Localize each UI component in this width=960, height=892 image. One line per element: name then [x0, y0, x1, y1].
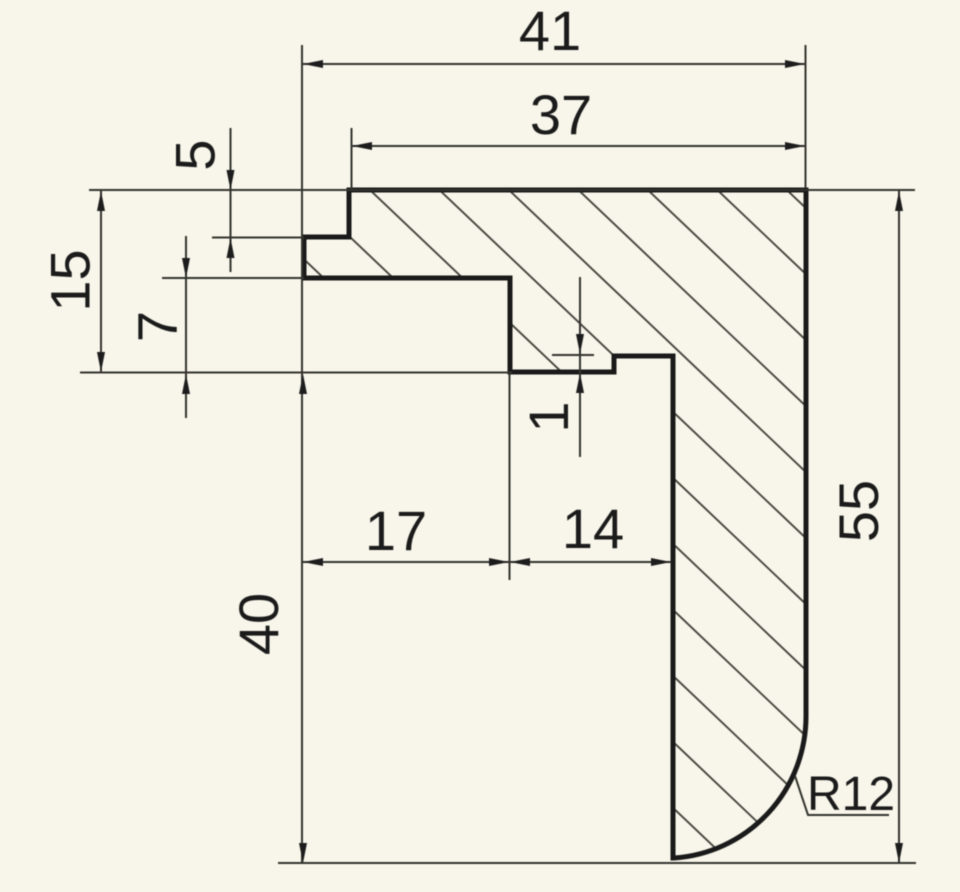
baseline y=863 — [278, 862, 916, 864]
svg-text:41: 41 — [519, 0, 581, 62]
leader R12 — [795, 776, 889, 815]
svg-text:15: 15 — [39, 249, 102, 311]
extension line x=509.5 — [509, 374, 511, 580]
extension line y=372.5 — [80, 372, 512, 374]
arrow 55 top (up) — [895, 191, 903, 211]
arrow 14 left — [510, 558, 530, 566]
extension tick y=355 — [552, 354, 594, 356]
arrow 37 right — [785, 142, 805, 150]
dim line 17/14 y=562 — [303, 561, 671, 563]
arrow 41 left — [303, 60, 323, 68]
svg-text:7: 7 — [126, 311, 189, 342]
arrow 41 right — [785, 60, 805, 68]
arrow 5 top (down) — [227, 170, 235, 190]
section hatching — [280, 0, 840, 892]
svg-text:1: 1 — [517, 401, 580, 432]
profile outline — [304, 190, 806, 858]
dim line 1 x=580 — [579, 277, 581, 457]
arrow 7 top (down) — [182, 258, 190, 278]
extension/dim line x=302 — [301, 45, 303, 863]
dim line 41 y=64 — [303, 63, 805, 65]
svg-text:14: 14 — [562, 497, 624, 560]
svg-text:5: 5 — [164, 139, 227, 170]
dim line 37 y=146 — [352, 145, 805, 147]
arrow 1 bottom (up) — [576, 373, 584, 393]
extension line top surface y=190 — [89, 189, 915, 191]
svg-text:55: 55 — [827, 480, 890, 542]
dim line 5 x=230.5 — [230, 128, 232, 272]
arrow 40 top (up) — [299, 374, 307, 394]
extension line x=351.5 — [351, 128, 353, 190]
svg-text:37: 37 — [530, 83, 592, 146]
extension line x=805.5 — [805, 45, 807, 188]
arrow 15 bottom (down) — [97, 352, 105, 372]
dim line 15 x=101 — [100, 190, 102, 373]
arrow 15 top (up) — [97, 191, 105, 211]
arrow 5 bottom (up) — [227, 238, 235, 258]
arrow 1 top (down) — [576, 334, 584, 354]
extension line flange bottom y=278 — [162, 277, 304, 279]
arrow 40 bottom (down) — [299, 843, 307, 863]
arrow 55 bottom (down) — [895, 843, 903, 863]
arrow 17 right — [489, 558, 509, 566]
svg-text:40: 40 — [227, 593, 290, 655]
dim line 55 x=899 — [898, 190, 900, 863]
extension line step y=237.5 — [212, 237, 304, 239]
svg-text:17: 17 — [365, 499, 427, 562]
arrow 17 left — [303, 558, 323, 566]
dim line 7 x=186 — [185, 236, 187, 418]
arrow 37 left — [352, 142, 372, 150]
arrow 14 right — [651, 558, 671, 566]
arrow 7 bottom (up) — [182, 374, 190, 394]
svg-text:R12: R12 — [807, 768, 895, 821]
